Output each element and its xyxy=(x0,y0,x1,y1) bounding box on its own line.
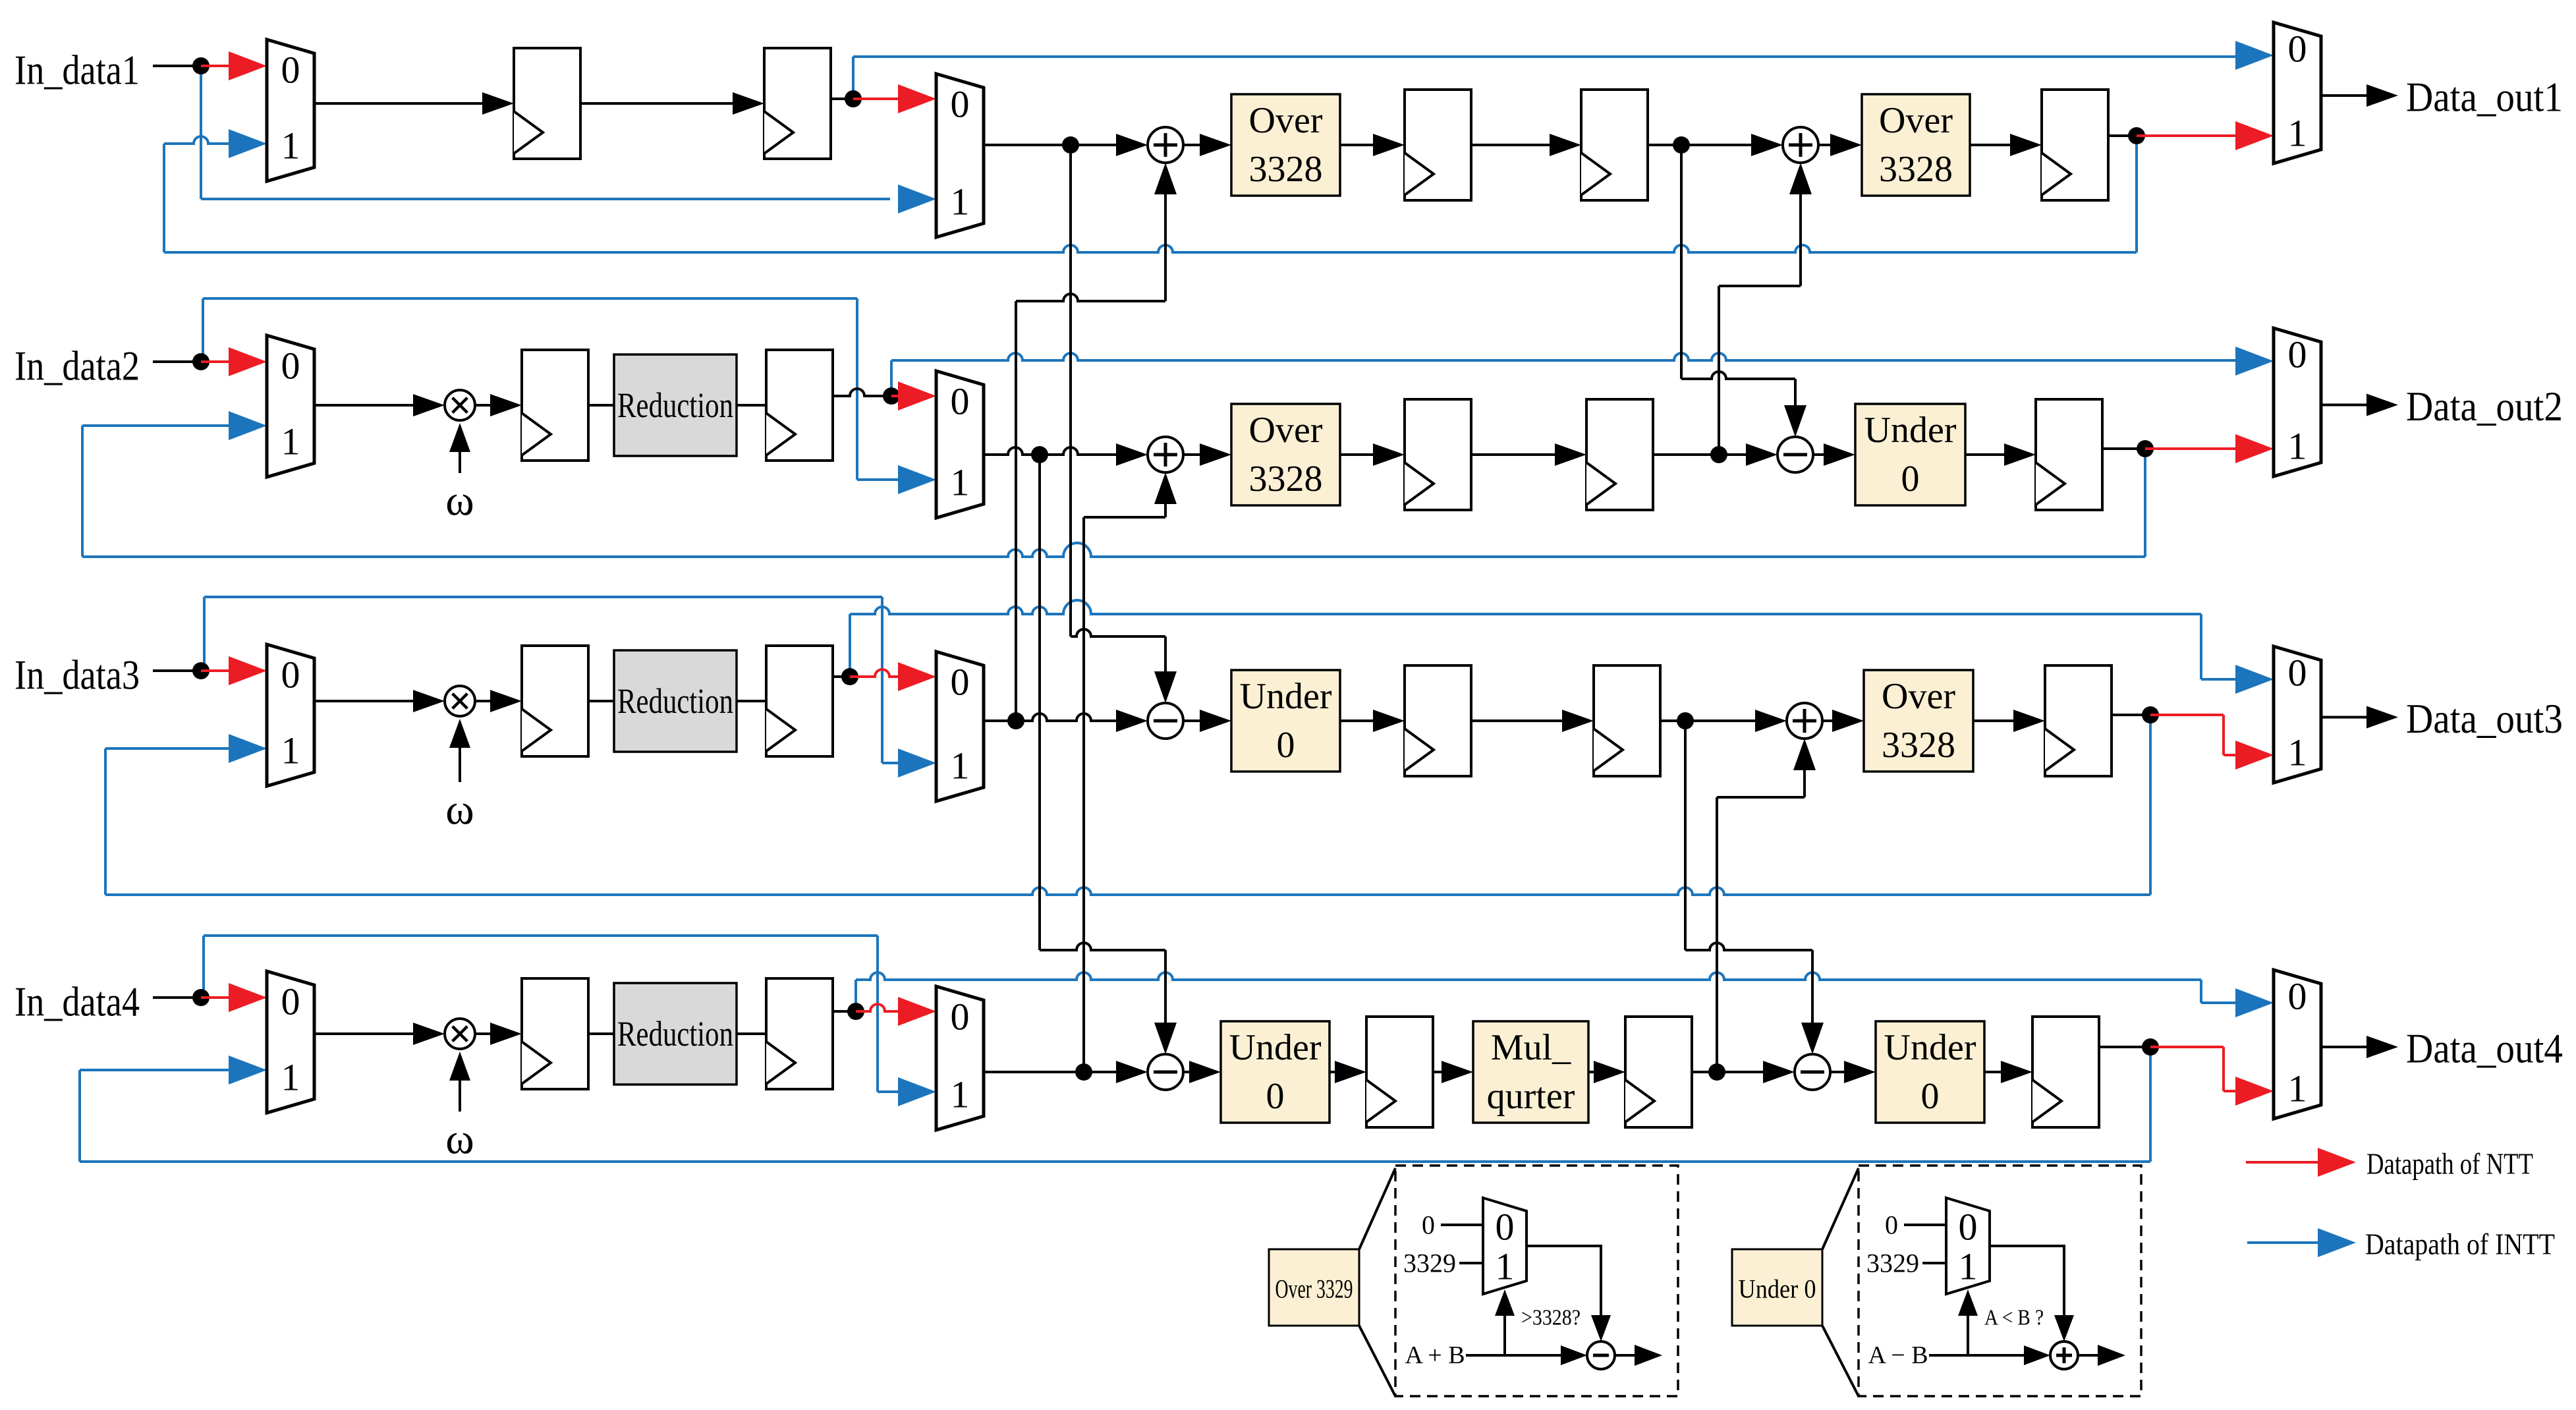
svg-text:0: 0 xyxy=(951,380,970,423)
svg-text:3328: 3328 xyxy=(1882,725,1955,766)
svg-text:ω: ω xyxy=(445,1115,474,1164)
svg-text:Datapath of INTT: Datapath of INTT xyxy=(2365,1227,2555,1261)
svg-text:0: 0 xyxy=(1266,1076,1285,1117)
svg-text:0: 0 xyxy=(281,980,300,1023)
svg-text:0: 0 xyxy=(951,83,970,126)
svg-text:Over: Over xyxy=(1879,100,1953,141)
svg-text:1: 1 xyxy=(2288,112,2307,155)
svg-text:0: 0 xyxy=(1277,725,1295,766)
svg-text:3328: 3328 xyxy=(1879,149,1953,190)
svg-text:0: 0 xyxy=(1422,1210,1435,1240)
svg-text:1: 1 xyxy=(951,745,970,787)
svg-text:0: 0 xyxy=(2288,333,2307,376)
svg-text:3328: 3328 xyxy=(1249,149,1323,190)
svg-text:In_data3: In_data3 xyxy=(14,652,140,698)
svg-text:Data_out2: Data_out2 xyxy=(2406,383,2563,430)
svg-text:Over 3329: Over 3329 xyxy=(1275,1274,1353,1304)
svg-text:0: 0 xyxy=(2288,28,2307,70)
svg-text:1: 1 xyxy=(1496,1245,1515,1288)
svg-text:0: 0 xyxy=(1921,1076,1940,1117)
svg-text:In_data1: In_data1 xyxy=(14,47,140,94)
svg-text:Datapath of NTT: Datapath of NTT xyxy=(2366,1147,2533,1181)
svg-text:1: 1 xyxy=(281,1056,300,1099)
svg-text:Under: Under xyxy=(1884,1027,1976,1068)
svg-text:Data_out1: Data_out1 xyxy=(2406,74,2563,121)
svg-text:In_data4: In_data4 xyxy=(14,978,140,1025)
svg-text:1: 1 xyxy=(1959,1245,1978,1288)
svg-text:Data_out3: Data_out3 xyxy=(2406,695,2563,742)
svg-text:A − B: A − B xyxy=(1868,1341,1928,1369)
svg-text:A < B ?: A < B ? xyxy=(1984,1306,2044,1330)
svg-text:Over: Over xyxy=(1882,676,1955,717)
svg-text:1: 1 xyxy=(2288,731,2307,774)
svg-text:1: 1 xyxy=(281,125,300,167)
svg-text:1: 1 xyxy=(281,420,300,463)
svg-text:0: 0 xyxy=(281,49,300,92)
svg-text:Data_out4: Data_out4 xyxy=(2406,1025,2563,1072)
svg-text:1: 1 xyxy=(281,729,300,772)
svg-text:0: 0 xyxy=(1959,1206,1978,1249)
svg-text:0: 0 xyxy=(1901,459,1920,499)
svg-text:Under: Under xyxy=(1240,676,1332,717)
svg-text:Reduction: Reduction xyxy=(617,1014,733,1054)
svg-text:>3328?: >3328? xyxy=(1521,1306,1581,1330)
svg-text:Reduction: Reduction xyxy=(617,681,733,721)
svg-text:0: 0 xyxy=(2288,652,2307,694)
svg-text:Mul_: Mul_ xyxy=(1491,1027,1571,1068)
svg-text:Over: Over xyxy=(1249,410,1323,451)
svg-text:0: 0 xyxy=(2288,975,2307,1018)
svg-text:1: 1 xyxy=(951,1073,970,1116)
svg-text:3328: 3328 xyxy=(1249,459,1323,499)
svg-text:ω: ω xyxy=(445,477,474,525)
svg-text:ω: ω xyxy=(445,786,474,834)
svg-text:0: 0 xyxy=(951,661,970,704)
svg-text:0: 0 xyxy=(1496,1206,1515,1249)
svg-text:3329: 3329 xyxy=(1866,1249,1919,1278)
svg-text:0: 0 xyxy=(1885,1210,1898,1240)
svg-text:0: 0 xyxy=(281,654,300,696)
svg-text:0: 0 xyxy=(951,996,970,1038)
svg-text:A + B: A + B xyxy=(1405,1341,1465,1369)
svg-text:Reduction: Reduction xyxy=(617,385,733,425)
svg-text:Over: Over xyxy=(1249,100,1323,141)
svg-text:1: 1 xyxy=(2288,425,2307,468)
svg-text:3329: 3329 xyxy=(1403,1249,1456,1278)
svg-text:Under: Under xyxy=(1229,1027,1322,1068)
svg-text:In_data2: In_data2 xyxy=(14,343,140,389)
svg-text:1: 1 xyxy=(951,461,970,504)
svg-text:1: 1 xyxy=(951,181,970,223)
svg-text:0: 0 xyxy=(281,345,300,387)
svg-text:1: 1 xyxy=(2288,1067,2307,1110)
svg-text:qurter: qurter xyxy=(1487,1076,1575,1117)
svg-text:Under 0: Under 0 xyxy=(1739,1274,1816,1304)
svg-text:Under: Under xyxy=(1864,410,1957,451)
